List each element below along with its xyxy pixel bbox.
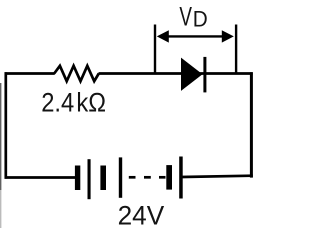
battery 24V <box>75 157 183 200</box>
VD tick right <box>235 25 237 73</box>
voltage label VD <box>179 1 207 31</box>
wire top segment left (corner to resistor) <box>5 72 55 75</box>
svg-text:V: V <box>179 1 192 31</box>
resistor <box>54 66 99 81</box>
wire right <box>250 72 253 177</box>
wire bottom right segment (corner to battery) <box>182 176 253 177</box>
VD measurement arrow <box>157 30 234 42</box>
wire dashed battery section <box>129 176 166 179</box>
wire top segment right (resistor to top-right corner) <box>99 72 253 75</box>
svg-text:D: D <box>193 7 208 32</box>
svg-text:2.4kΩ: 2.4kΩ <box>41 88 106 118</box>
VD tick left <box>154 25 156 73</box>
svg-text:24V: 24V <box>118 200 165 230</box>
wire left <box>4 72 7 178</box>
diode <box>181 57 206 93</box>
wire bottom left segment (corner to battery) <box>5 176 77 179</box>
